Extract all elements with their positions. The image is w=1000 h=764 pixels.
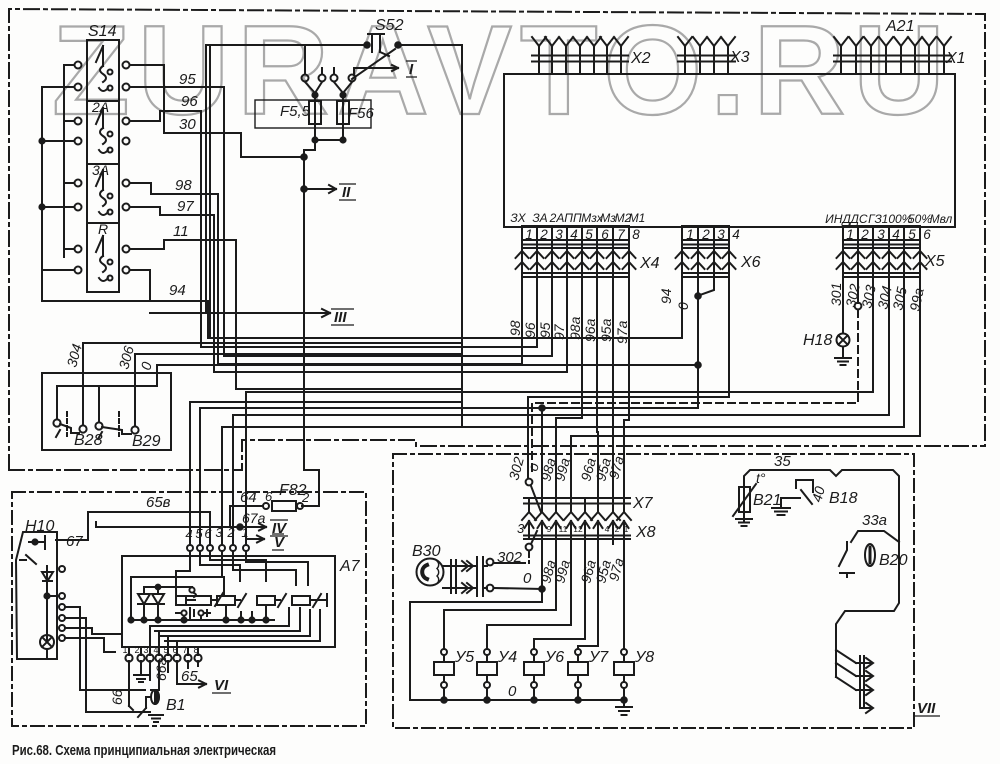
svg-text:2А: 2А — [549, 211, 565, 225]
svg-text:35: 35 — [774, 453, 791, 470]
svg-text:66: 66 — [109, 689, 125, 705]
svg-text:X6: X6 — [740, 254, 761, 271]
svg-text:ГЗ: ГЗ — [868, 212, 882, 226]
svg-text:ПП: ПП — [564, 211, 582, 225]
svg-text:В28: В28 — [74, 432, 103, 449]
svg-text:3: 3 — [215, 525, 223, 540]
svg-text:В30: В30 — [412, 543, 441, 560]
svg-text:X1: X1 — [945, 50, 966, 67]
svg-text:2: 2 — [301, 490, 310, 505]
svg-text:1: 1 — [122, 645, 127, 655]
svg-text:97: 97 — [177, 198, 194, 215]
svg-text:1: 1 — [525, 227, 533, 242]
svg-text:302: 302 — [497, 549, 523, 566]
svg-text:30: 30 — [179, 116, 196, 133]
svg-text:Н10: Н10 — [25, 518, 54, 535]
svg-text:Рис.68. Схема принципиальная э: Рис.68. Схема принципиальная электрическ… — [12, 742, 276, 759]
svg-text:0: 0 — [523, 570, 532, 587]
svg-text:S52: S52 — [375, 17, 404, 34]
svg-text:7: 7 — [182, 645, 187, 655]
svg-text:5: 5 — [195, 526, 203, 541]
svg-text:У7: У7 — [588, 649, 609, 666]
svg-text:6: 6 — [923, 227, 931, 242]
svg-text:98: 98 — [507, 320, 523, 336]
svg-text:3: 3 — [555, 227, 563, 242]
svg-text:9: 9 — [547, 524, 552, 534]
svg-text:6: 6 — [265, 489, 273, 504]
svg-text:ЗА: ЗА — [532, 211, 547, 225]
svg-text:5: 5 — [163, 645, 168, 655]
svg-text:VI: VI — [214, 677, 229, 694]
svg-text:4: 4 — [892, 227, 900, 242]
svg-text:II: II — [342, 184, 351, 201]
svg-text:96: 96 — [522, 322, 538, 338]
svg-text:6: 6 — [172, 645, 177, 655]
svg-text:3: 3 — [517, 521, 525, 536]
svg-text:4: 4 — [185, 527, 192, 542]
svg-text:У6: У6 — [544, 649, 564, 666]
svg-text:98: 98 — [175, 177, 192, 194]
svg-text:301: 301 — [828, 283, 844, 306]
svg-text:X7: X7 — [632, 495, 654, 512]
svg-text:2: 2 — [701, 227, 710, 242]
svg-text:III: III — [334, 309, 347, 326]
svg-text:3: 3 — [877, 227, 885, 242]
svg-text:97: 97 — [551, 323, 567, 340]
svg-text:95: 95 — [179, 71, 196, 88]
svg-text:t°: t° — [756, 470, 766, 486]
svg-text:11: 11 — [173, 223, 189, 240]
svg-text:В1: В1 — [166, 697, 186, 714]
svg-text:3: 3 — [143, 645, 148, 655]
svg-text:0: 0 — [508, 683, 517, 700]
svg-text:ДС: ДС — [848, 212, 867, 226]
svg-text:3А: 3А — [92, 162, 109, 178]
svg-text:X8: X8 — [635, 524, 656, 541]
svg-text:4: 4 — [153, 645, 158, 655]
svg-text:У5: У5 — [454, 649, 474, 666]
svg-text:50%: 50% — [908, 212, 932, 226]
svg-text:2А: 2А — [91, 99, 109, 115]
svg-text:У8: У8 — [634, 649, 654, 666]
svg-text:4: 4 — [570, 227, 578, 242]
svg-text:Н18: Н18 — [803, 332, 832, 349]
svg-text:X5: X5 — [924, 253, 945, 270]
svg-text:В29: В29 — [132, 433, 161, 450]
svg-text:4: 4 — [732, 227, 740, 242]
svg-text:S14: S14 — [88, 23, 117, 40]
svg-text:12: 12 — [573, 524, 583, 534]
svg-text:5: 5 — [908, 227, 916, 242]
svg-text:В21: В21 — [753, 492, 781, 509]
svg-text:В20: В20 — [879, 552, 908, 569]
svg-text:В18: В18 — [829, 490, 858, 507]
svg-text:X4: X4 — [639, 255, 660, 272]
svg-text:4: 4 — [605, 524, 610, 534]
svg-text:F5,5: F5,5 — [280, 103, 311, 120]
svg-text:95а: 95а — [598, 318, 614, 342]
svg-text:64: 64 — [240, 489, 257, 506]
svg-text:0: 0 — [675, 302, 691, 310]
svg-text:11: 11 — [559, 524, 568, 534]
svg-text:А21: А21 — [885, 18, 914, 35]
svg-text:67: 67 — [66, 533, 83, 550]
svg-text:Мвл: Мвл — [930, 212, 953, 226]
svg-text:2: 2 — [134, 645, 139, 655]
svg-text:8: 8 — [193, 645, 198, 655]
svg-text:1: 1 — [846, 227, 854, 242]
svg-text:94: 94 — [658, 288, 674, 304]
svg-text:ИНД: ИНД — [825, 212, 851, 226]
svg-text:8: 8 — [632, 227, 640, 242]
svg-text:У4: У4 — [497, 649, 517, 666]
svg-text:94: 94 — [169, 282, 186, 299]
svg-text:33а: 33а — [862, 512, 887, 529]
svg-text:2: 2 — [226, 525, 235, 540]
svg-text:М1: М1 — [629, 211, 646, 225]
svg-text:2: 2 — [539, 227, 548, 242]
svg-text:5: 5 — [585, 227, 593, 242]
svg-text:65в: 65в — [146, 494, 171, 511]
svg-text:98а: 98а — [567, 316, 583, 340]
svg-text:1: 1 — [686, 227, 694, 242]
svg-text:96а: 96а — [582, 318, 598, 342]
svg-text:65: 65 — [181, 668, 198, 685]
svg-text:6: 6 — [204, 526, 212, 541]
svg-text:А7: А7 — [339, 558, 361, 575]
svg-text:R: R — [98, 221, 108, 237]
svg-text:7: 7 — [617, 227, 625, 242]
svg-text:VII: VII — [917, 700, 936, 717]
svg-text:96: 96 — [181, 93, 198, 110]
svg-text:3: 3 — [717, 227, 725, 242]
svg-text:X3: X3 — [729, 49, 750, 66]
svg-text:67а: 67а — [242, 510, 266, 526]
svg-text:6: 6 — [601, 227, 609, 242]
svg-text:F56: F56 — [348, 105, 375, 122]
svg-text:X2: X2 — [630, 50, 651, 67]
svg-text:97а: 97а — [614, 320, 630, 344]
svg-text:2: 2 — [860, 227, 869, 242]
svg-text:66а: 66а — [153, 657, 169, 681]
svg-text:1: 1 — [624, 524, 629, 534]
svg-text:2: 2 — [615, 524, 620, 534]
svg-text:ЗХ: ЗХ — [510, 211, 526, 225]
svg-text:1: 1 — [241, 525, 248, 540]
